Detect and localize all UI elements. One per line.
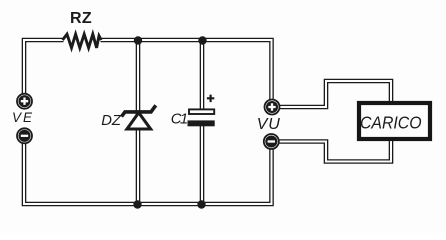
wire bottom rail: VE- down, across, up to VU-	[24, 143, 272, 204]
wire left-top: VE+ up to top rail, right to resistor	[24, 40, 64, 94]
wire VU+ to CARICO top	[279, 81, 391, 107]
wire black outer layer	[24, 40, 391, 204]
capacitor C1 top plate	[189, 109, 214, 114]
wire VU- to CARICO bottom	[279, 140, 391, 162]
svg-text:RZ: RZ	[70, 10, 92, 27]
zener diode DZ anode triangle	[127, 113, 151, 129]
wire C1 branch vertical upper	[200, 40, 205, 110]
svg-text:C1: C1	[171, 111, 188, 128]
load box CARICO	[359, 103, 430, 139]
svg-text:VE: VE	[12, 110, 34, 125]
node junction top-left (DZ to top rail)	[134, 36, 142, 44]
svg-text:DZ: DZ	[101, 113, 122, 129]
terminal VU minus	[264, 134, 279, 149]
resistor RZ zigzag	[63, 34, 102, 48]
svg-text:VU: VU	[257, 116, 281, 133]
capacitor C1 polarity plus sign	[207, 95, 214, 103]
terminal VE plus	[17, 94, 32, 109]
terminal VE minus	[17, 128, 32, 143]
terminal VU plus	[265, 100, 280, 115]
capacitor C1 bottom plate	[188, 120, 215, 126]
wire white core layer	[24, 40, 391, 204]
wire DZ branch vertical	[136, 40, 141, 204]
wire C1 branch vertical lower	[200, 126, 205, 204]
node junction bottom-left (DZ to bottom rail)	[133, 200, 141, 208]
zener diode DZ cathode bar	[122, 105, 156, 116]
wire top rail: resistor to right corner down to VU+	[101, 40, 272, 100]
svg-text:CARICO: CARICO	[360, 113, 422, 133]
node junction bottom-right (C1 to bottom rail)	[197, 200, 205, 208]
node junction top-right (C1 to top rail)	[198, 36, 206, 44]
